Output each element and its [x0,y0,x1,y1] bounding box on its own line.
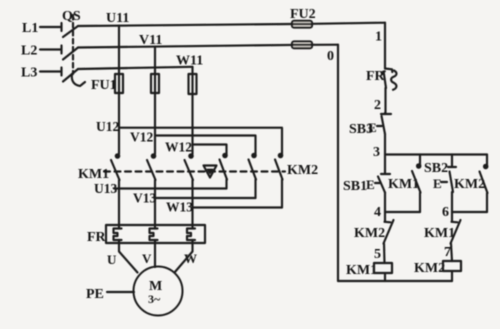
node 7 [444,245,451,260]
node L2 [21,44,62,59]
fuse FU1 pole 3 [189,74,197,94]
node V13 [133,191,256,206]
mechanical interlock dashed link [104,170,285,172]
fuse FU1 pole 1 [91,74,123,93]
svg-text:QS: QS [62,9,81,24]
thermal relay FR heaters [87,225,205,245]
wire W drop [191,67,193,74]
pushbutton SB1 forward start [343,155,390,213]
svg-text:2: 2 [374,98,381,113]
svg-text:KM2: KM2 [287,163,318,178]
svg-text:FU1: FU1 [91,78,117,93]
svg-text:L3: L3 [21,66,37,81]
svg-text:KM2: KM2 [354,226,385,241]
motor M 3~ [134,267,183,316]
svg-text:4: 4 [374,205,381,220]
switch QS [62,9,85,86]
svg-text:7: 7 [444,245,451,260]
node 0 [327,45,338,281]
wire motor lead U [107,243,138,273]
node 5 [374,247,381,262]
wire motor lead V [142,243,155,267]
coil KM2 [414,261,461,281]
wire bottom return rail [338,280,452,282]
node L1 [22,21,62,36]
coil KM1 [346,263,392,281]
fuse FU2 upper [290,7,316,28]
wire V12 drop [154,93,156,154]
contactor KM1 main contacts [78,154,193,182]
node W13 [166,200,282,215]
svg-text:3: 3 [373,145,380,160]
node 1 [375,23,385,69]
pushbutton SB2 reverse start [424,155,456,213]
wire KM1 pole outputs [118,180,120,225]
svg-text:3~: 3~ [148,292,161,306]
svg-text:SB2: SB2 [424,161,448,176]
svg-text:E: E [366,177,375,192]
svg-text:KM2: KM2 [454,177,485,192]
wire U drop [118,26,120,74]
wire bus U11 [78,11,385,26]
node U13 [94,181,227,196]
wire V drop [154,47,156,74]
thermal relay FR NC contact [366,69,397,114]
svg-text:KM1: KM1 [78,167,109,182]
interlock triangle [204,166,217,178]
wire W12 drop [191,94,193,154]
svg-text:E: E [368,120,377,135]
svg-text:KM2: KM2 [414,261,445,276]
svg-text:L2: L2 [21,44,37,59]
node W12 [165,140,227,156]
wire motor lead W [175,243,198,273]
node U12 [96,119,282,155]
contact KM1 interlock NC [424,212,461,261]
contact KM2 interlock NC [354,212,394,263]
node 4 [374,205,420,220]
svg-text:W12: W12 [165,140,192,155]
node V12 [130,130,256,156]
node PE [86,287,134,302]
node 6 [442,205,487,220]
svg-text:W13: W13 [166,200,193,215]
svg-text:V: V [142,251,152,266]
wire U12 drop [118,93,120,154]
svg-text:V13: V13 [133,191,156,206]
svg-text:1: 1 [375,30,382,45]
svg-text:U: U [107,252,117,267]
svg-text:5: 5 [374,247,381,262]
node L3 [21,66,62,81]
wire bus W11 [78,54,203,70]
pushbutton SB3 stop [349,113,391,155]
svg-text:SB1: SB1 [343,179,367,194]
svg-text:L1: L1 [22,21,38,36]
svg-text:U12: U12 [96,119,119,134]
svg-text:PE: PE [86,287,104,302]
svg-text:FR: FR [87,230,107,245]
svg-text:0: 0 [327,49,334,64]
contact KM2 aux NO [454,155,488,213]
node 2 [374,98,381,113]
svg-text:E: E [433,176,442,191]
svg-text:U11: U11 [106,11,129,26]
contactor KM2 main contacts [220,154,319,180]
node 3 [373,145,487,160]
svg-text:6: 6 [442,205,449,220]
svg-text:KM1: KM1 [346,263,377,278]
svg-text:KM1: KM1 [424,226,455,241]
wire bus V11 [78,33,338,48]
svg-text:V12: V12 [130,130,153,145]
fuse FU2 lower [292,41,312,48]
fuse FU1 pole 2 [151,74,159,93]
contact KM1 aux NO [388,155,421,213]
wire KM2 pole outputs [225,180,227,189]
